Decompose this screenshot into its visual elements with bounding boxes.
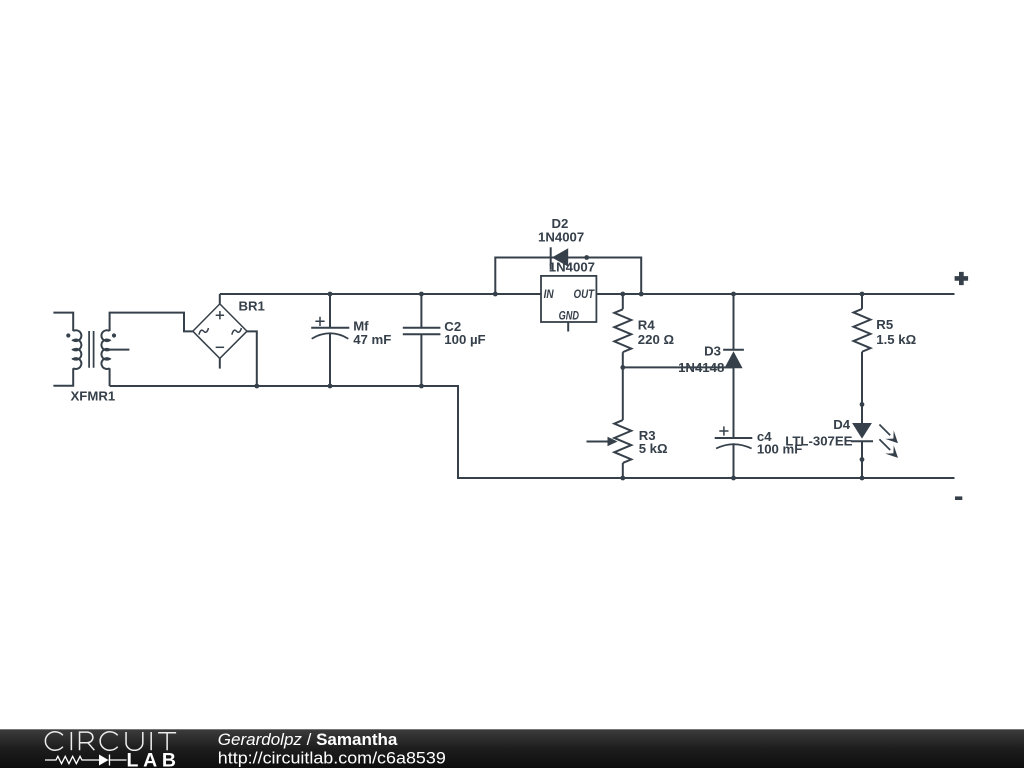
transformer XFMR1 primary lead top — [53, 313, 73, 331]
node junction LED at rail — [860, 476, 865, 481]
bridge BR1 right ac tilde — [231, 328, 242, 335]
resistor R5 zigzag — [854, 309, 871, 352]
wire D2 bypass loop — [495, 258, 641, 295]
svg-text:1N4148: 1N4148 — [678, 360, 724, 375]
capacitor C2 bottom wire — [420, 334, 422, 386]
diode D3 top wire — [733, 294, 735, 350]
svg-text:1.5 kΩ: 1.5 kΩ — [876, 332, 916, 347]
bridge BR1 plus mark — [216, 311, 224, 319]
capacitor c4 curved plate — [716, 444, 752, 448]
bridge BR1 top stub — [219, 294, 221, 304]
op-amp U1 regulator box — [541, 276, 596, 322]
transformer XFMR1 core — [89, 331, 94, 368]
node junction D2 left — [493, 292, 498, 297]
transformer XFMR1 primary polarity dot — [66, 333, 70, 337]
LED D4 light arrow 2 — [879, 439, 890, 450]
capacitor Mf bottom wire — [329, 333, 331, 386]
logo resistor wire — [45, 756, 99, 763]
regulator GND stub — [567, 322, 569, 332]
bridge BR1 bottom stub — [219, 358, 221, 368]
node junction bridge right / mid rail — [254, 384, 259, 389]
svg-text:100 µF: 100 µF — [444, 332, 485, 347]
potentiometer R3 zigzag — [614, 420, 631, 463]
logo diode bar and wire — [109, 755, 127, 766]
svg-text:LTL-307EE: LTL-307EE — [785, 434, 852, 449]
svg-text:D4: D4 — [833, 417, 851, 432]
svg-text:LAB: LAB — [127, 750, 181, 768]
node junction D3 top — [731, 292, 736, 297]
node junction on D2 wire — [584, 255, 589, 260]
transformer XFMR1 secondary winding junction stubs — [105, 340, 111, 359]
resistor R4 zigzag — [614, 309, 631, 352]
svg-text:IN: IN — [544, 287, 554, 301]
bridge rectifier BR1 diamond — [193, 304, 247, 359]
node junction D2 right — [639, 292, 644, 297]
potentiometer R3 wiper arrowhead — [608, 437, 618, 446]
capacitor c4 top plate — [715, 437, 753, 439]
transformer XFMR1 primary winding junction stubs — [72, 340, 78, 359]
transformer XFMR1 secondary winding — [101, 330, 109, 369]
LED D4 bottom wire — [861, 441, 863, 478]
node junction R4 bottom — [620, 365, 625, 370]
logo diode — [99, 755, 109, 766]
svg-text:BR1: BR1 — [239, 299, 265, 314]
node junction R3 bottom — [620, 476, 625, 481]
terminal plus sign — [955, 272, 969, 285]
bridge BR1 right stub to mid rail — [247, 331, 257, 386]
footer bar — [0, 729, 1024, 768]
svg-text:R4: R4 — [638, 318, 656, 333]
transformer XFMR1 secondary bottom lead — [109, 368, 111, 386]
node junction LED top — [860, 402, 865, 407]
node junction R5 top — [860, 292, 865, 297]
resistor R5 top wire — [861, 294, 863, 309]
transformer XFMR1 secondary polarity dot — [112, 333, 116, 337]
diode D2 triangle — [552, 248, 568, 266]
wire top rail right segment — [596, 293, 954, 295]
svg-text:http://circuitlab.com/c6a8539: http://circuitlab.com/c6a8539 — [218, 748, 446, 767]
resistor R4 bottom wire — [622, 352, 624, 367]
capacitor Mf top wire — [329, 294, 331, 328]
node junction C2 bottom — [419, 384, 424, 389]
LED D4 cathode bar — [851, 440, 873, 442]
LED D4 light arrowhead 1 — [885, 431, 898, 444]
capacitor Mf plus mark — [315, 317, 324, 326]
potentiometer R3 top wire — [622, 367, 624, 420]
wire top rail left segment — [220, 293, 541, 295]
svg-text:XFMR1: XFMR1 — [71, 389, 116, 404]
logo CIRCUIT text — [45, 732, 176, 751]
svg-text:220 Ω: 220 Ω — [638, 332, 675, 347]
transformer XFMR1 center tap stub — [105, 349, 129, 351]
node junction Mf bottom — [328, 384, 333, 389]
resistor R5 bottom wire — [861, 352, 863, 423]
transformer XFMR1 secondary top lead wire to bridge — [110, 313, 193, 332]
LED D4 light arrowhead 2 — [885, 445, 898, 458]
bridge BR1 left ac tilde — [198, 328, 209, 335]
svg-text:1N4007: 1N4007 — [538, 230, 584, 245]
capacitor C2 plates — [403, 328, 441, 334]
svg-text:Mf: Mf — [353, 318, 369, 333]
node junction C2 top — [419, 292, 424, 297]
node junction LED bottom — [860, 457, 865, 462]
svg-text:5 kΩ: 5 kΩ — [639, 441, 668, 456]
svg-text:47 mF: 47 mF — [353, 332, 391, 347]
wire mid rail and drop to bottom rail — [110, 386, 955, 478]
diode D2 cathode bar — [550, 247, 552, 269]
svg-text:Gerardolpz / Samantha: Gerardolpz / Samantha — [218, 730, 398, 749]
svg-text:1N4007: 1N4007 — [549, 260, 595, 275]
LED D4 triangle — [852, 423, 872, 439]
capacitor c4 top wire — [733, 368, 735, 438]
wire R4 junction to D3 branch — [623, 366, 734, 368]
capacitor c4 bottom wire — [733, 443, 735, 478]
bridge BR1 minus mark — [216, 346, 224, 348]
capacitor C2 top wire — [420, 294, 422, 328]
capacitor Mf curved plate — [312, 333, 349, 338]
potentiometer R3 wiper arrow — [587, 441, 610, 443]
diode D3 triangle — [724, 351, 742, 368]
LED D4 light arrow 1 — [879, 425, 890, 436]
svg-text:OUT: OUT — [574, 287, 596, 301]
transformer XFMR1 primary lead bottom — [53, 368, 73, 386]
resistor R4 top wire — [622, 294, 624, 309]
potentiometer R3 bottom wire — [622, 463, 624, 478]
diode D3 cathode bar — [723, 349, 744, 351]
node junction Mf top — [328, 292, 333, 297]
capacitor c4 plus mark — [719, 426, 728, 435]
node junction c4 bottom — [731, 476, 736, 481]
node junction R4 top — [620, 292, 625, 297]
capacitor Mf top plate — [311, 327, 349, 329]
transformer XFMR1 primary winding — [73, 330, 81, 369]
svg-text:GND: GND — [559, 308, 580, 322]
terminal minus sign — [955, 496, 962, 500]
svg-text:D3: D3 — [704, 344, 721, 359]
svg-text:R5: R5 — [876, 317, 893, 332]
